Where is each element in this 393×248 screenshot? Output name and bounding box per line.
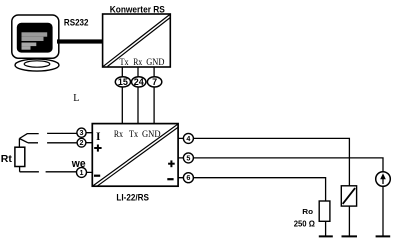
svg-text:5: 5 bbox=[186, 153, 190, 162]
svg-text:RS232: RS232 bbox=[64, 17, 89, 27]
svg-text:4: 4 bbox=[186, 134, 190, 143]
svg-text:L: L bbox=[73, 93, 79, 104]
svg-text:Rx: Rx bbox=[114, 129, 124, 139]
svg-text:I: I bbox=[96, 131, 101, 143]
svg-text:Rt: Rt bbox=[1, 153, 13, 165]
svg-text:7: 7 bbox=[152, 77, 157, 87]
svg-text:Ro: Ro bbox=[302, 207, 313, 216]
svg-text:Tx: Tx bbox=[120, 57, 130, 67]
svg-text:LI-22/RS: LI-22/RS bbox=[116, 192, 149, 203]
svg-text:Tx: Tx bbox=[129, 129, 139, 139]
svg-text:we: we bbox=[71, 158, 86, 170]
svg-text:6: 6 bbox=[186, 173, 190, 182]
svg-text:2: 2 bbox=[80, 138, 84, 147]
svg-text:15: 15 bbox=[118, 77, 128, 87]
svg-text:GND: GND bbox=[146, 57, 165, 67]
svg-text:GND: GND bbox=[142, 129, 161, 139]
svg-text:3: 3 bbox=[80, 128, 84, 137]
svg-text:24: 24 bbox=[134, 77, 144, 87]
svg-text:250 Ω: 250 Ω bbox=[294, 219, 315, 229]
svg-text:Rx: Rx bbox=[133, 57, 142, 67]
